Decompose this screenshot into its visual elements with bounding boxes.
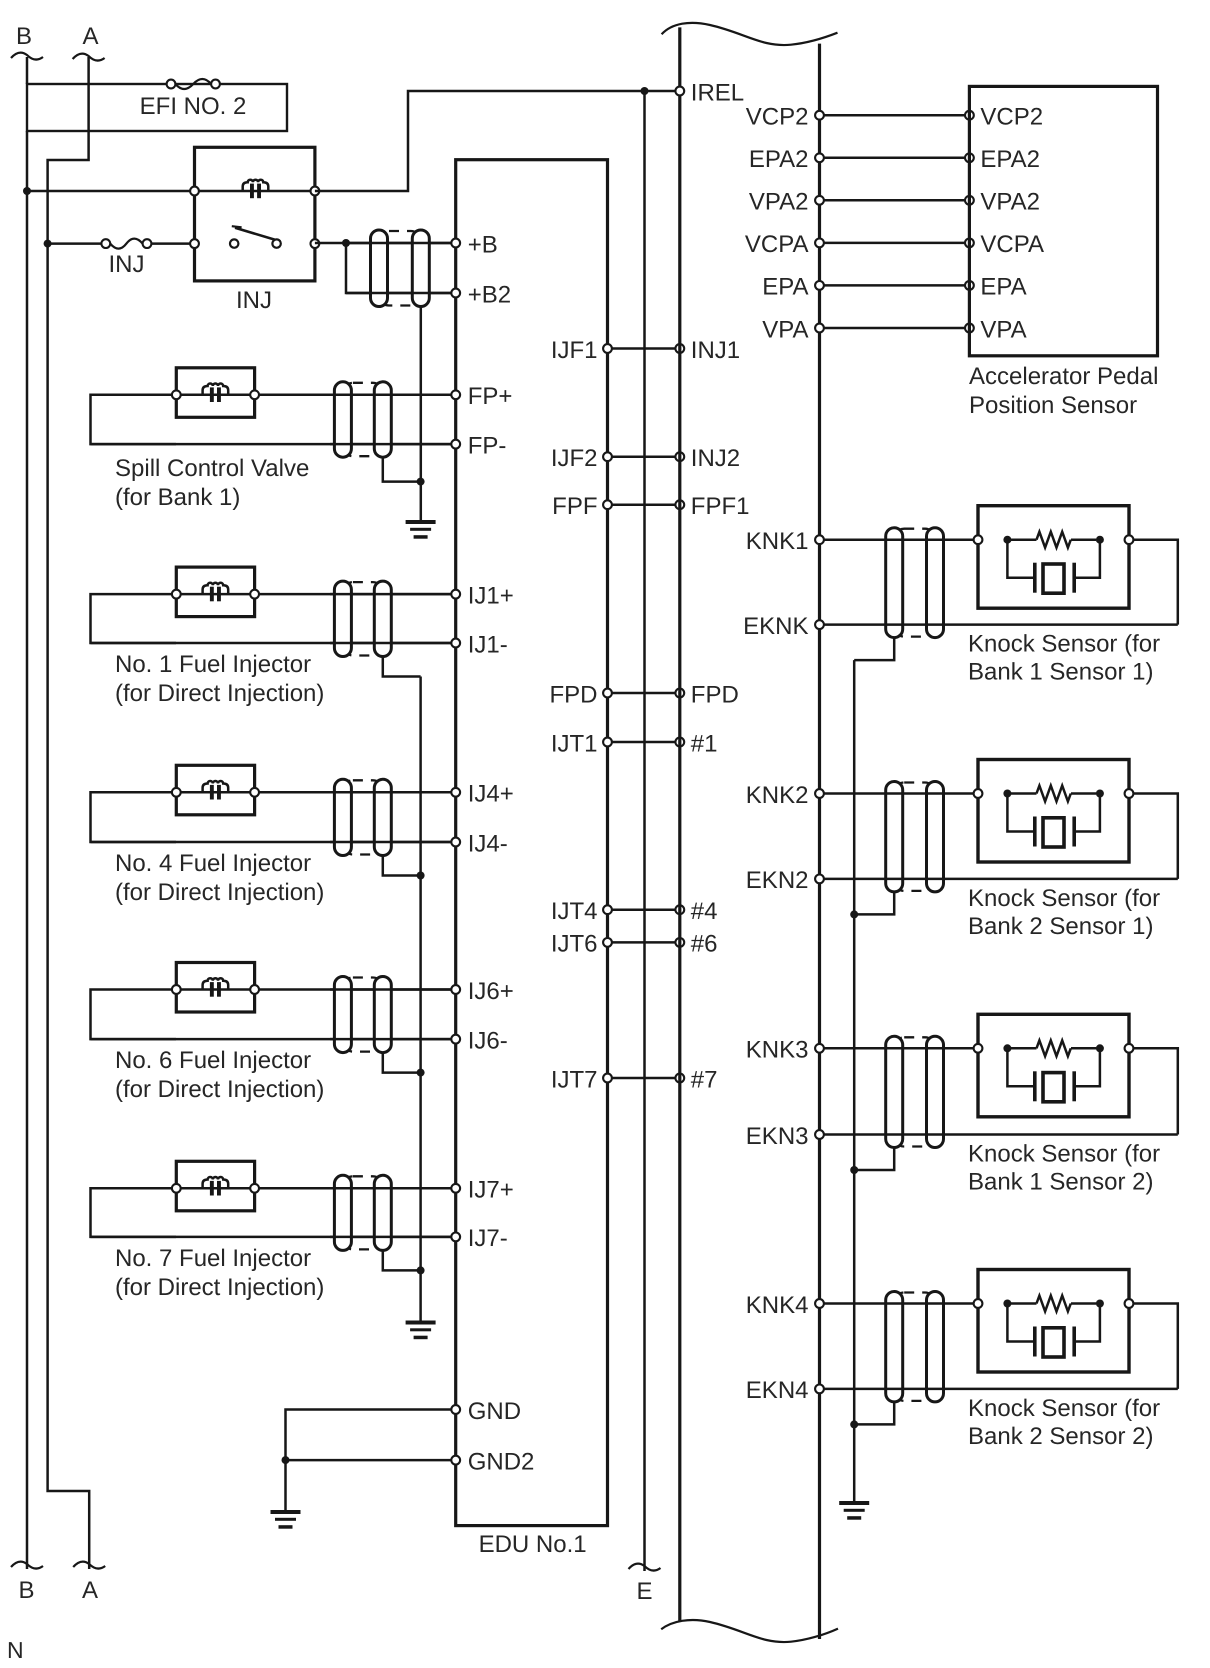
wire IJT6 to #6 [608,941,680,944]
wire IJ4- through shield [330,841,456,844]
pin #6 (ECU) [675,931,717,958]
wire A to INJ fuse [48,242,102,245]
knock sensor 1 pin left [974,535,983,544]
svg-text:EKNK: EKNK [743,613,808,640]
pin GND2 (EDU) [451,1448,534,1475]
wire injector 6 loop [91,990,177,1040]
pin VPA (ECU) [762,316,824,343]
wire IJ7- through shield [330,1236,456,1239]
svg-text:IJ4+: IJ4+ [468,781,514,808]
shielded cable for FP+/FP- [334,382,391,457]
wire shield drain IJ4 [383,856,421,876]
wire shield drain +B cable [420,307,423,521]
svg-text:A: A [82,23,98,50]
injector No. 7 coil outline [176,1161,254,1211]
wire KNK4 [820,1302,979,1305]
piezo element X1 [1007,540,1100,594]
junction E line at IREL wire [641,87,649,95]
svg-text:N: N [7,1637,24,1663]
pin EPA (sensor) [965,274,1027,301]
svg-text:(for Direct Injection): (for Direct Injection) [115,1274,324,1301]
svg-text:VPA2: VPA2 [980,189,1040,216]
wire-break at A (top) [73,54,105,61]
injector No. 6 pin right [250,985,259,994]
junction R2 left [1003,790,1011,798]
pin FPD (EDU) [550,681,612,708]
svg-text:No. 6 Fuel Injector: No. 6 Fuel Injector [115,1047,311,1074]
svg-text:Bank 2 Sensor 2): Bank 2 Sensor 2) [968,1423,1153,1450]
wire FP- through shield [330,443,456,446]
shielded cable for IJ1 [334,581,391,656]
pin KNK4 (ECU) [746,1292,824,1319]
injector No. 4 pin right [250,788,259,797]
svg-text:INJ2: INJ2 [691,445,740,472]
knock sensor 3 pin right [1125,1044,1134,1053]
wire KNK2 [820,792,979,795]
pin VCPA (sensor) [965,231,1044,258]
shielded cable for IJ6 [334,977,391,1053]
Accelerator Pedal Position Sensor box [969,86,1157,355]
knock sensor 3 pin left [974,1044,983,1053]
fuse box EFI NO. 2 [27,84,287,131]
pin EKN2 (ECU) [746,867,824,894]
svg-text:KNK2: KNK2 [746,782,809,809]
injector No. 6 coil outline [176,963,254,1013]
knock sensor 2 shielded cable [886,782,944,892]
label INJ (relay) [236,287,272,314]
injector No. 1 pin left [172,590,181,599]
injector No. 6 pin left [172,985,181,994]
pin KNK1 (ECU) [746,528,824,555]
knock sensor 1 pin right [1125,535,1134,544]
pin IJT4 (EDU) [551,898,612,925]
ground (below +B shield) [406,520,436,539]
label Knock Sensor (for 4 [968,1395,1160,1422]
pin EPA2 (sensor) [965,146,1040,173]
label (for Bank 1) [115,484,240,511]
svg-text:EKN2: EKN2 [746,867,809,894]
pin FP+ (EDU) [451,383,512,410]
node E (bottom) [636,1578,652,1605]
svg-text:#6: #6 [691,931,718,958]
svg-text:Knock Sensor (for: Knock Sensor (for [968,1141,1160,1168]
svg-text:IJT7: IJT7 [551,1066,598,1093]
pin FPD (ECU) [675,681,738,708]
wire GND [286,1410,456,1511]
junction R4 right [1096,1300,1104,1308]
resistor R1 [1011,532,1096,548]
junction R4 left [1003,1300,1011,1308]
svg-text:IJT4: IJT4 [551,898,598,925]
svg-text:INJ: INJ [236,287,272,314]
pin VPA2 (sensor) [965,189,1040,216]
svg-text:KNK3: KNK3 [746,1037,809,1064]
wire IJ7- lower [91,1236,456,1239]
svg-text:GND: GND [468,1398,521,1425]
pin IJ4- (EDU) [451,830,507,857]
pin #1 (ECU) [675,730,717,757]
piezo element X2 [1007,794,1100,848]
wire KNK1 [820,538,979,541]
pin INJ2 (ECU) [675,445,740,472]
junction knock drain 3 [850,1166,858,1174]
svg-text:IREL: IREL [691,79,744,106]
svg-text:No. 7 Fuel Injector: No. 7 Fuel Injector [115,1245,311,1272]
junction R3 right [1096,1044,1104,1052]
wire VCPA [820,242,970,245]
injector No. 6 coil [176,978,254,996]
label Position Sensor [969,392,1137,419]
svg-text:VCP2: VCP2 [980,104,1043,131]
svg-text:+B2: +B2 [468,281,511,308]
node A (bottom) [82,1577,98,1604]
svg-text:#4: #4 [691,898,718,925]
knock sensor 2 pin right [1125,789,1134,798]
wire injector 1 to IJ1+ [255,593,456,596]
svg-text:EDU No.1: EDU No.1 [479,1531,587,1558]
svg-text:(for Bank 1): (for Bank 1) [115,484,240,511]
wire B feed (left vertical) [26,131,29,1569]
svg-text:EPA: EPA [980,274,1026,301]
pin VCPA (ECU) [745,231,824,258]
svg-text:Position Sensor: Position Sensor [969,392,1137,419]
svg-text:IJF2: IJF2 [551,445,598,472]
label N (page footer) [7,1637,24,1663]
resistor R2 [1011,786,1096,802]
piezo element X3 [1007,1048,1100,1101]
label No. 7 Fuel Injector [115,1245,311,1272]
svg-text:(for Direct Injection): (for Direct Injection) [115,879,324,906]
pin VPA (sensor) [965,316,1027,343]
solenoid valve pin left [172,390,181,399]
knock sensor 4 pin right [1125,1299,1134,1308]
wire injector 4 to IJ4+ [255,791,456,794]
wire injector 7 to IJ7+ [255,1187,456,1190]
pin IJ1+ (EDU) [451,582,513,609]
knock sensor 2 pin left [974,789,983,798]
injector No. 7 coil [176,1177,254,1196]
solenoid valve outline [176,368,254,418]
pin EKN3 (ECU) [746,1123,824,1150]
label EDU No.1 [479,1531,587,1558]
svg-text:Bank 1 Sensor 1): Bank 1 Sensor 1) [968,659,1153,686]
pin IJ7- (EDU) [451,1225,507,1252]
wire E line [643,91,646,1571]
svg-text:FPF1: FPF1 [691,493,750,520]
knock sensor 1 box [978,506,1129,609]
node B (top) [16,23,32,50]
junction drain IJ4 [417,872,425,880]
relay INJ box [195,147,315,281]
svg-text:IJT6: IJT6 [551,931,598,958]
pin EKNK (ECU) [743,613,824,640]
pin FPF1 (ECU) [675,493,749,520]
wire EKN4 [820,1388,1178,1391]
svg-text:#7: #7 [691,1066,718,1093]
wire VPA2 [820,199,970,202]
wire IJ1- lower [91,642,456,645]
label Knock Sensor (for 1 [968,631,1160,658]
knock sensor 3 box [978,1014,1129,1117]
svg-text:Accelerator Pedal: Accelerator Pedal [969,363,1158,390]
wire IJ4- lower [91,841,456,844]
pin #7 (ECU) [675,1066,717,1093]
pin VPA2 (ECU) [749,189,824,216]
wire-break at B (bottom) [11,1562,43,1569]
svg-text:Knock Sensor (for: Knock Sensor (for [968,885,1160,912]
svg-text:EPA: EPA [762,274,808,301]
label Bank 2 Sensor 1) [968,913,1153,940]
svg-text:B: B [18,1577,34,1604]
wire IJ6+ through shield [330,988,456,991]
shielded cable for IJ4 [334,779,391,855]
pin GND (EDU) [451,1398,521,1425]
pin IJT7 (EDU) [551,1066,612,1093]
svg-text:Bank 1 Sensor 2): Bank 1 Sensor 2) [968,1169,1153,1196]
relay INJ coil [195,180,315,199]
label No. 4 Fuel Injector [115,850,311,877]
ECU top wavy edge [662,23,838,45]
junction A to INJ fuse [44,240,52,248]
wire IJF1 to INJ1 [608,347,680,350]
pin IREL (ECU) [675,79,744,106]
wire +B through shield [346,242,456,245]
svg-text:VPA: VPA [762,316,808,343]
svg-text:Spill Control Valve: Spill Control Valve [115,455,309,482]
injector No. 4 pin left [172,788,181,797]
svg-text:VCP2: VCP2 [746,104,809,131]
fuse INJ [101,239,151,249]
ECU right edge [818,44,821,1639]
svg-text:E: E [636,1578,652,1605]
pin IJ4+ (EDU) [451,781,513,808]
pin EPA2 (ECU) [749,146,824,173]
wire-break at B (top) [11,53,43,60]
svg-text:VCPA: VCPA [980,231,1044,258]
svg-text:A: A [82,1577,98,1604]
svg-text:KNK4: KNK4 [746,1292,809,1319]
svg-text:(for Direct Injection): (for Direct Injection) [115,1076,324,1103]
wire IJ7+ through shield [330,1187,456,1190]
wire +B2 through shield [346,292,456,295]
label (for Direct Injection) 7 [115,1274,324,1301]
label EFI NO. 2 [140,93,247,120]
svg-text:EKN3: EKN3 [746,1123,809,1150]
pin INJ1 (ECU) [675,337,740,364]
injector No. 1 coil [176,583,254,602]
svg-text:Bank 2 Sensor 1): Bank 2 Sensor 1) [968,913,1153,940]
pin FPF (EDU) [552,493,612,520]
EDU No.1 box [456,160,608,1526]
pin IJT1 (EDU) [551,730,612,757]
wire knock 4 return [1129,1304,1178,1389]
svg-text:INJ: INJ [109,251,145,278]
injector No. 4 coil [176,781,254,800]
label Bank 1 Sensor 1) [968,659,1153,686]
wire EPA [820,284,970,287]
pin +B2 (EDU) [451,281,511,308]
pin IJ6- (EDU) [451,1027,507,1054]
wire knock 2 return [1129,794,1178,879]
label (for Direct Injection) 1 [115,680,324,707]
ECU bottom wavy edge [661,1620,838,1642]
wire relay coil to IREL [315,91,675,191]
wire-break at E (bottom) [629,1564,661,1571]
svg-text:#1: #1 [691,730,718,757]
svg-text:+B: +B [468,231,498,258]
node B (bottom) [18,1577,34,1604]
label (for Direct Injection) 6 [115,1076,324,1103]
svg-text:No. 4 Fuel Injector: No. 4 Fuel Injector [115,850,311,877]
label INJ (fuse) [109,251,145,278]
wire IJT7 to #7 [608,1077,680,1080]
relay coil pin right [311,187,320,196]
pin EPA (ECU) [762,274,824,301]
wire knock 1 shield drain [854,638,894,661]
piezo element X4 [1007,1304,1100,1358]
ground (below injector drains) [406,1321,436,1340]
wire FP+ through shield [330,394,456,397]
relay switch pin left [190,239,199,248]
wire FP- lower [91,443,456,446]
pin IJ7+ (EDU) [451,1177,513,1204]
pin KNK2 (ECU) [746,782,824,809]
knock sensor 4 pin left [974,1299,983,1308]
wire relay switch to +B [315,242,456,245]
junction knock drain 2 [850,910,858,918]
svg-text:IJF1: IJF1 [551,337,598,364]
label Bank 1 Sensor 2) [968,1169,1153,1196]
wire spill valve to FP+ [255,394,456,397]
junction knock drain 4 [850,1420,858,1428]
pin VCP2 (sensor) [965,104,1043,131]
wire INJ fuse to relay switch [151,242,194,245]
label (for Direct Injection) 4 [115,879,324,906]
wire A feed [48,57,90,1569]
pin +B (EDU) [451,231,497,258]
svg-text:IJ4-: IJ4- [468,830,508,857]
label Accelerator Pedal [969,363,1158,390]
svg-text:EKN4: EKN4 [746,1377,809,1404]
pin IJF1 (EDU) [551,337,612,364]
svg-text:Knock Sensor (for: Knock Sensor (for [968,1395,1160,1422]
resistor R3 [1011,1040,1096,1056]
wire knock 1 return [1129,540,1178,625]
wire knock 3 return [1129,1048,1178,1134]
wire FPD to FPD [608,692,680,695]
svg-text:GND2: GND2 [468,1448,535,1475]
svg-text:(for Direct Injection): (for Direct Injection) [115,680,324,707]
pin KNK3 (ECU) [746,1037,824,1064]
svg-text:IJ1+: IJ1+ [468,582,514,609]
svg-text:IJ6+: IJ6+ [468,978,514,1005]
injector No. 7 pin left [172,1184,181,1193]
label No. 1 Fuel Injector [115,651,311,678]
knock sensor 1 shielded cable [886,528,944,638]
junction R2 right [1096,790,1104,798]
wire injector 6 to IJ6+ [255,988,456,991]
svg-text:IJ7-: IJ7- [468,1225,508,1252]
junction GND2 to ground [282,1456,290,1464]
ground (knock sensors) [839,1501,869,1520]
svg-text:FPD: FPD [691,681,739,708]
junction B to relay coil [23,187,31,195]
svg-text:EPA2: EPA2 [980,146,1040,173]
wire FPF to FPF1 [608,503,680,506]
resistor R4 [1011,1296,1096,1312]
injector No. 4 coil outline [176,765,254,815]
wire VCP2 [820,114,970,117]
junction FP shield drain [417,478,425,486]
wire IJ6- lower [91,1038,456,1041]
shielded cable for +B/+B2 [371,230,430,307]
wire injector 4 loop [91,792,177,842]
solenoid valve pin right [250,390,259,399]
wire EKNK [820,623,1178,626]
label Bank 2 Sensor 2) [968,1423,1153,1450]
injector No. 1 coil outline [176,567,254,617]
knock sensor 3 shielded cable [886,1036,944,1147]
svg-text:FP-: FP- [468,432,507,459]
wire knock drain bus [853,660,856,1501]
relay INJ switch [230,226,281,248]
wire shield drain IJ6 [383,1053,421,1073]
pin IJ1- (EDU) [451,631,507,658]
knock sensor 4 box [978,1270,1129,1373]
fuse EFI NO. 2 [167,79,220,89]
svg-text:VPA: VPA [980,316,1026,343]
svg-text:Knock Sensor (for: Knock Sensor (for [968,631,1160,658]
wire VPA [820,327,970,330]
wire knock 2 shield drain [854,892,894,915]
wire IJ1+ through shield [330,593,456,596]
wire shield drain IJ1 [383,657,421,677]
label Knock Sensor (for 2 [968,885,1160,912]
node A (top) [82,23,98,50]
relay coil pin left [190,187,199,196]
label No. 6 Fuel Injector [115,1047,311,1074]
wire knock 3 shield drain [854,1148,894,1171]
wire KNK3 [820,1047,979,1050]
knock sensor 4 shielded cable [886,1292,944,1402]
injector No. 1 pin right [250,590,259,599]
pin FP- (EDU) [451,432,506,459]
wire knock 4 shield drain [854,1402,894,1425]
svg-text:FP+: FP+ [468,383,513,410]
wire IJT4 to #4 [608,908,680,911]
svg-text:FPF: FPF [552,493,597,520]
wire injector 7 loop [91,1188,177,1237]
wire spill valve loop [91,395,177,444]
svg-text:EPA2: EPA2 [749,146,809,173]
junction R1 left [1003,536,1011,544]
wire IJ6- through shield [330,1038,456,1041]
pin #4 (ECU) [675,898,717,925]
relay switch pin right [311,239,320,248]
label Knock Sensor (for 3 [968,1141,1160,1168]
wire IJF2 to INJ2 [608,455,680,458]
ECU left edge [678,27,681,1621]
wire IJ1- through shield [330,642,456,645]
wire IJ4+ through shield [330,791,456,794]
wire shield drain IJ7 [383,1250,421,1270]
svg-text:KNK1: KNK1 [746,528,809,555]
shielded cable for IJ7 [334,1175,391,1250]
junction +B branch [342,239,350,247]
wire +B branch to +B2 [346,243,456,293]
svg-text:INJ1: INJ1 [691,337,740,364]
wire injector 1 loop [91,594,177,643]
